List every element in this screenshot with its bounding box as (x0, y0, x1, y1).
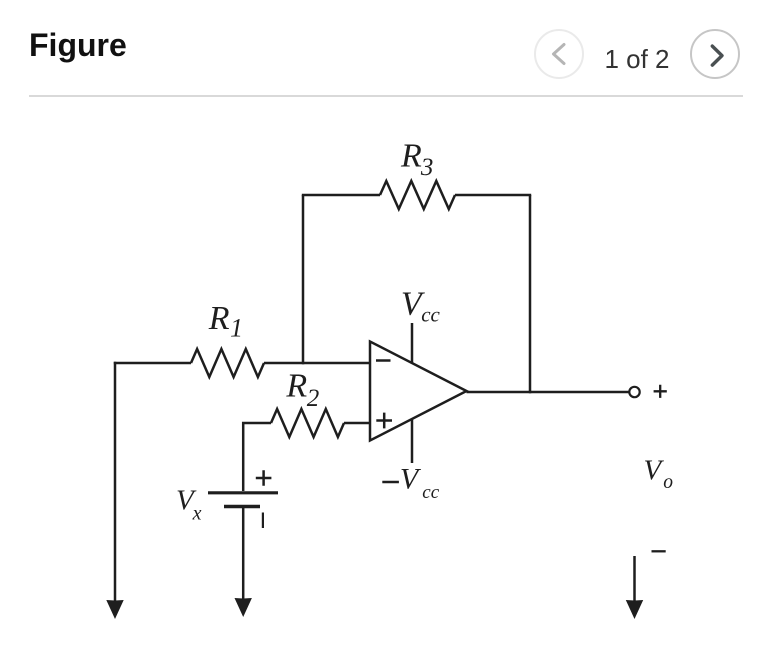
op-amp inverting input mark (376, 359, 391, 362)
next page button (690, 29, 740, 79)
wire: battery positive lead (L-shape) (243, 423, 271, 491)
output + polarity mark (654, 385, 667, 398)
svg-text:R: R (208, 300, 230, 337)
wire: feedback top right segment (455, 194, 531, 197)
wire: battery negative lead (242, 507, 245, 601)
svg-text:3: 3 (420, 154, 434, 181)
label Vcc (401, 285, 441, 326)
wire: feedback right vertical (529, 195, 532, 392)
wire: R1 to inverting input (264, 362, 370, 365)
svg-text:R: R (285, 367, 307, 404)
ground arrow (left) (106, 600, 123, 619)
wire: feedback top left segment (302, 194, 380, 197)
svg-text:x: x (192, 503, 202, 525)
label Vo (644, 454, 674, 493)
header divider (29, 95, 743, 97)
resistor R3 (380, 181, 455, 209)
resistor R1 (191, 349, 264, 377)
svg-text:o: o (663, 472, 673, 493)
label Vx (176, 484, 202, 524)
prev page button (534, 29, 584, 79)
label R2 (285, 367, 319, 411)
svg-text:1: 1 (230, 314, 243, 343)
resistor R2 (271, 409, 344, 437)
label R3 (400, 137, 433, 181)
wire: op-amp output (467, 391, 630, 394)
output - polarity mark (652, 550, 666, 552)
label R1 (208, 300, 243, 343)
op-amp non-inverting input mark (376, 413, 392, 429)
-Vcc supply lead (411, 419, 414, 463)
ground arrow (middle) (235, 598, 252, 617)
svg-text:V: V (400, 463, 422, 496)
battery + polarity mark (256, 470, 272, 485)
wire: left branch vertical (114, 362, 117, 602)
battery Vx negative plate (224, 505, 260, 509)
svg-text:V: V (644, 454, 665, 486)
label -Vcc (382, 463, 439, 503)
output terminal (629, 387, 639, 397)
wire: feedback left vertical (302, 195, 305, 363)
battery Vx positive plate (208, 491, 278, 494)
svg-text:cc: cc (421, 303, 440, 327)
page indicator (604, 46, 670, 72)
op-amp U1 (370, 342, 467, 441)
svg-text:2: 2 (307, 385, 320, 412)
node: inverting input junction (302, 362, 305, 365)
battery - polarity tick (262, 513, 264, 529)
wire: R2 to non-inverting input (344, 422, 370, 425)
svg-text:R: R (400, 137, 422, 174)
node: output junction (529, 391, 532, 394)
ground arrow (right) (626, 600, 643, 619)
wire: input left horizontal (114, 362, 191, 365)
svg-text:cc: cc (422, 482, 439, 503)
wire: output reference lead (633, 556, 636, 602)
figure title (29, 28, 127, 63)
Vcc supply lead (411, 323, 414, 364)
